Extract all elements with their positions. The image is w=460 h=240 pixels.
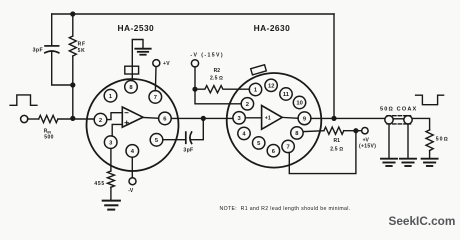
svg-text:HA-2630: HA-2630 [254, 23, 291, 33]
svg-text:R1: R1 [334, 138, 341, 144]
resistor R2 2.5 ohm [195, 86, 249, 93]
U2 pin 2 [241, 98, 253, 110]
U1 case tab [125, 66, 139, 74]
svg-text:2: 2 [246, 102, 249, 108]
wire pin 5 to comp capacitor [163, 139, 185, 141]
node junction input line [70, 116, 75, 121]
svg-text:8: 8 [129, 85, 133, 91]
wire input terminal to RIN [28, 118, 39, 120]
svg-text:6: 6 [163, 117, 167, 123]
svg-text:-V: -V [128, 188, 134, 194]
wire between coax connectors [393, 118, 404, 120]
svg-text:HA-2530: HA-2530 [118, 23, 155, 33]
svg-text:2: 2 [99, 118, 102, 124]
U2 pin 12 [265, 79, 277, 91]
U2 pin 5 [253, 137, 265, 149]
op-amp triangle U1 [122, 107, 143, 127]
wire pin 8 to R1 [303, 130, 324, 133]
svg-text:NOTE: R1 and R2 lead length s: NOTE: R1 and R2 lead length should be mi… [220, 206, 351, 212]
input terminal [21, 115, 28, 122]
wire pin 3 down to 455 [110, 149, 112, 171]
wire buffer output to pin 9 [282, 116, 298, 119]
svg-text:7: 7 [154, 95, 157, 101]
svg-text:3: 3 [238, 116, 242, 122]
terminal -V of U1 [129, 178, 136, 185]
wire comp capacitor to output node [191, 118, 204, 139]
wire 455 to ground [110, 187, 112, 200]
wire coax right shield to ground [407, 124, 409, 158]
resistor RIN 500 [39, 115, 58, 122]
U2 pin 3 [233, 112, 245, 124]
node comp cap / output [201, 116, 206, 121]
label RF 5K [78, 42, 86, 55]
wire output node to coax [334, 117, 385, 119]
wire RF branch upper [72, 14, 74, 36]
U1 pin 1 [104, 89, 117, 102]
ground (coax right) [400, 159, 416, 166]
label R2 2.5 ohm [210, 68, 223, 81]
svg-text:8: 8 [295, 131, 299, 137]
wire RF lower to input node [72, 56, 74, 118]
coax shield dashes [387, 116, 411, 124]
wire U1 output to pin 6 [143, 117, 159, 120]
op-amp U2 HA-2630 can [227, 73, 322, 168]
label minus input [125, 112, 128, 114]
label +V (+15V) [359, 138, 376, 150]
wire top feedback line [52, 13, 334, 15]
svg-text:4: 4 [131, 149, 135, 155]
svg-text:+1: +1 [265, 116, 271, 122]
U1 pin 3 [104, 136, 117, 149]
resistor 455 [107, 171, 114, 187]
ground (top, case of U1) [135, 49, 150, 55]
U1 pin 6 [159, 112, 172, 125]
op-amp U1 HA-2530 can [87, 79, 179, 171]
wire +V to pin 7 [154, 67, 157, 91]
U1 pin 2 [94, 113, 107, 126]
svg-text:6: 6 [272, 149, 276, 155]
node output junction [331, 116, 336, 121]
resistor 50 ohm load [426, 130, 433, 151]
U2 pin 11 [280, 88, 292, 100]
wire +V node loop to pin 7 [289, 131, 356, 174]
U2 pin 4 [238, 127, 250, 139]
svg-text:3pF: 3pF [33, 48, 43, 54]
U2 pin 8 [291, 127, 303, 139]
wire pin 3 to non-inverting input [112, 124, 122, 136]
resistor R1 2.5 ohm [324, 127, 344, 134]
svg-text:5K: 5K [78, 48, 86, 54]
ground (load) [422, 159, 438, 166]
svg-text:455: 455 [94, 181, 104, 187]
terminal -V supply [191, 60, 198, 67]
svg-text:12: 12 [268, 84, 274, 90]
wire below capacitor to RF branch [52, 52, 73, 85]
terminal +V (+15V) [362, 128, 368, 134]
wire load to ground [429, 151, 431, 158]
svg-text:1: 1 [109, 94, 113, 100]
coax connector left [385, 116, 393, 124]
wire pin 4 to -V terminal [131, 157, 133, 177]
svg-text:9: 9 [303, 117, 307, 123]
node +V junction [353, 128, 358, 133]
U1 pin 8 [125, 81, 138, 94]
svg-text:5: 5 [257, 141, 261, 147]
wire pin 2 to inverting input [107, 113, 123, 120]
svg-text:4: 4 [242, 132, 246, 138]
label R1 2.5 ohm [330, 138, 343, 153]
svg-text:+V: +V [163, 61, 170, 67]
svg-text:2.5 Ω: 2.5 Ω [330, 146, 343, 152]
wire -V terminal down [194, 67, 196, 89]
svg-text:3: 3 [109, 140, 113, 146]
wire coax left shield to ground [388, 124, 390, 158]
U2 pin 6 [267, 145, 279, 157]
U1 pin 7 [149, 91, 162, 104]
wire pin 3 to buffer input [245, 117, 261, 119]
svg-text:5: 5 [155, 138, 159, 144]
svg-text:R2: R2 [214, 68, 221, 74]
capacitor 3pF compensation [186, 132, 192, 143]
svg-text:SeekIC.com: SeekIC.com [389, 214, 456, 228]
wire RIN to pin 2 [58, 118, 94, 120]
wire pin 6 to U2 pin 3 [171, 117, 233, 119]
svg-text:50Ω COAX: 50Ω COAX [380, 107, 417, 113]
output pulse waveform [416, 95, 444, 105]
buffer triangle U2 [262, 106, 283, 130]
U2 case tab [251, 65, 267, 75]
wire feedback drop [333, 14, 335, 118]
svg-text:2.5 Ω: 2.5 Ω [210, 76, 223, 82]
svg-text:-V (-15V): -V (-15V) [190, 53, 224, 59]
resistor RF 5K [69, 36, 76, 56]
input pulse waveform [10, 95, 37, 105]
U2 pin 9 [298, 112, 311, 125]
node junction cap / RF branch [70, 82, 75, 87]
U2 pin 1 [249, 83, 261, 95]
svg-text:50Ω: 50Ω [436, 136, 449, 142]
U2 pin 7 [282, 140, 294, 152]
svg-text:11: 11 [283, 92, 290, 98]
terminal +V of U1 [153, 60, 160, 67]
wire coax to load [412, 118, 429, 129]
wire tab to ground stub [132, 40, 143, 81]
wire left feedback drop to capacitor [51, 14, 53, 45]
svg-text:10: 10 [296, 101, 302, 107]
svg-text:1: 1 [254, 88, 258, 94]
ground (coax left) [381, 159, 397, 166]
svg-text:(+15V): (+15V) [359, 144, 376, 150]
svg-text:RF: RF [78, 42, 86, 48]
label plus input [125, 121, 128, 124]
label RIN 500 [44, 129, 54, 141]
node junction top line / RF [70, 11, 75, 16]
svg-text:500: 500 [44, 134, 54, 140]
wire -V junction to pin 2 of U2 [195, 89, 241, 104]
wire R1 to +V node [344, 130, 362, 132]
U1 pin 4 [126, 145, 139, 158]
ground (below 455) [103, 201, 120, 210]
svg-text:3pF: 3pF [183, 147, 193, 153]
svg-text:7: 7 [287, 145, 290, 151]
U2 pin 10 [293, 96, 305, 108]
U1 pin 5 [150, 134, 163, 147]
wire pin 9 to output node [311, 117, 334, 119]
capacitor 3pF feedback [45, 46, 59, 53]
coax connector right [404, 116, 412, 124]
node -V junction [192, 87, 197, 92]
